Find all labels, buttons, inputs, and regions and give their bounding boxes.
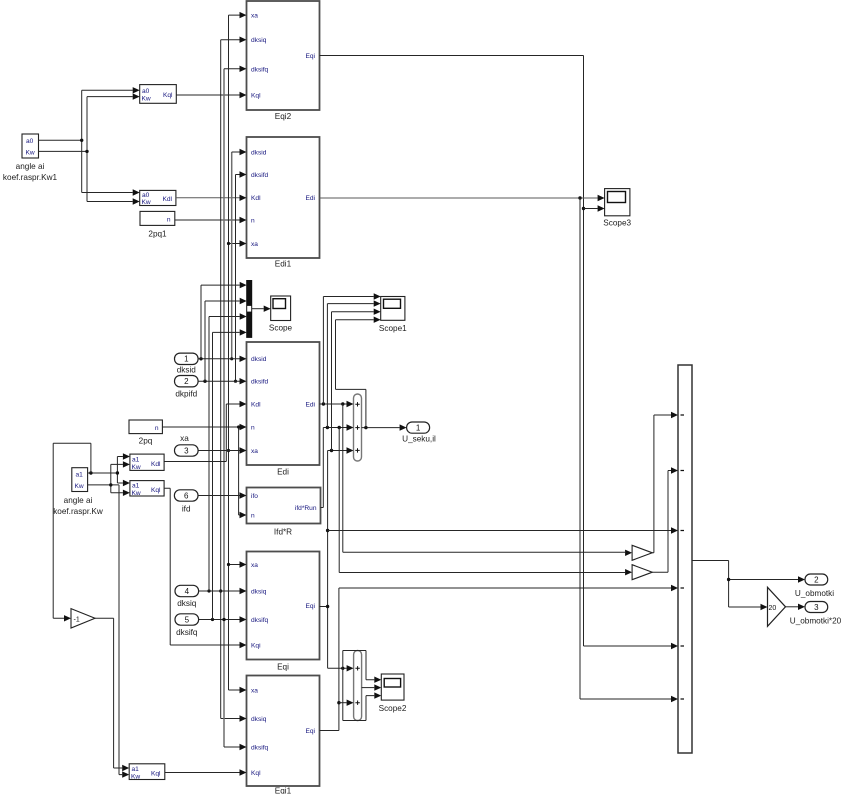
wire ifd*Run output to sum S1 in2 (net ifd*Run): [321, 424, 354, 507]
wire a0 from source to Kql/Kdl blocks: [39, 87, 140, 196]
svg-text:a1: a1: [132, 456, 140, 463]
wire ifd*Run branch down to gain G2: [339, 428, 632, 576]
wire loop Eqi1 around sum to Scope2 in3: [343, 692, 382, 720]
svg-text:2: 2: [814, 576, 819, 585]
wire port5 dksifq to Eqi: [199, 616, 247, 622]
svg-text:2pq: 2pq: [139, 437, 153, 446]
wire dksiq branch to mux M1 in3: [209, 313, 247, 591]
wire mux M2 output to port U_obmotki: [692, 561, 805, 608]
gain triangle 20: [768, 587, 786, 626]
scope block Scope2: [379, 674, 407, 713]
gain triangle -1: [71, 609, 95, 628]
svg-text:dksiq: dksiq: [177, 599, 197, 608]
svg-text:koef.raspr.Kw: koef.raspr.Kw: [53, 507, 103, 516]
scope block Scope1: [379, 297, 407, 334]
input port 3 (xa): [175, 434, 199, 456]
svg-text:Eqi: Eqi: [305, 728, 315, 735]
svg-text:Eqi: Eqi: [305, 603, 315, 610]
svg-text:dksiq: dksiq: [251, 37, 267, 44]
gain triangle G1 (upper small): [632, 545, 652, 560]
wire dksifq branch to mux M1 in4: [213, 329, 247, 619]
wire Kql to Eqi2.Kql: [176, 92, 246, 98]
wire mux M2 output branch to gain 20: [729, 604, 768, 610]
subsystem block Kdl (a0,Kw -> Kdl): [140, 190, 176, 206]
svg-text:xa: xa: [251, 688, 258, 695]
svg-text:Edi1: Edi1: [275, 260, 292, 269]
wire Eqi down to sum S2 in1: [328, 665, 354, 671]
wire Edi to Scope1 in1: [323, 293, 380, 404]
svg-text:Scope2: Scope2: [379, 704, 407, 713]
svg-text:3: 3: [814, 603, 819, 612]
wire port2 dkpifd to Edi: [198, 378, 246, 384]
svg-text:ifd: ifd: [182, 505, 191, 514]
constant block 2pq (n): [129, 420, 162, 446]
wire net dksifd vertical to Edi1: [234, 171, 247, 383]
wire Eqi1 output to mux M2 in4 (net Eqi1): [320, 585, 679, 731]
wire port1 dksid to Edi: [198, 356, 246, 362]
wire a1 from source to Kdl/Kql lower blocks: [88, 453, 130, 486]
wire gain G1 output up to mux M2 in1: [652, 412, 678, 553]
scope block Scope3: [603, 189, 631, 228]
svg-text:Edi: Edi: [277, 468, 289, 477]
source block a1/Kw (angle ai koef.raspr.Kw): [53, 468, 103, 516]
svg-text:dksifq: dksifq: [251, 66, 269, 73]
subsystem block Eqi1: [247, 676, 320, 794]
wire a1 loop to gain -1: [53, 443, 91, 621]
svg-text:U_obmotki*20: U_obmotki*20: [790, 617, 842, 626]
subsystem block Kql lower (a1,Kw -> Kql): [130, 481, 164, 497]
svg-text:dksifd: dksifd: [251, 172, 269, 179]
svg-text:Kw: Kw: [75, 483, 84, 490]
subsystem block Kql bottom (a1,Kw -> Kql): [129, 764, 165, 781]
svg-text:dkpifd: dkpifd: [175, 390, 197, 399]
svg-text:dksiq: dksiq: [251, 589, 267, 596]
wire Eqi1 branch to sum S2 in2: [339, 700, 354, 706]
svg-text:dksifq: dksifq: [176, 628, 198, 637]
svg-text:a0: a0: [142, 192, 150, 199]
wire Edi output to sum S1 in1 (net Edi): [320, 401, 354, 407]
svg-text:dksid: dksid: [251, 150, 267, 157]
wire Kql bottom block to Eqi1.Kql: [165, 769, 247, 775]
svg-text:dksifq: dksifq: [251, 745, 269, 752]
svg-text:Scope3: Scope3: [603, 219, 631, 228]
wire dksifd branch to mux M1 in2: [205, 298, 247, 381]
svg-text:U_seku,il: U_seku,il: [402, 435, 436, 444]
gain triangle G2 (lower small): [632, 565, 652, 580]
wire U_seku,il branch up to Scope1 in4: [336, 317, 381, 428]
svg-text:Eqi2: Eqi2: [275, 112, 292, 121]
output port 3 (U_obmotki*20): [790, 602, 842, 626]
svg-text:Scope1: Scope1: [379, 324, 407, 333]
wire ifd*Run to Scope1 in2: [327, 300, 380, 427]
input port 5 (dksifq): [175, 614, 199, 637]
subsystem block Kql (a0,Kw -> Kql): [140, 85, 177, 104]
svg-text:n: n: [155, 425, 159, 432]
wire sum S2 output to Scope2 in2: [362, 684, 382, 690]
sum block S1 (3 inputs -> U_seku,il): [354, 394, 362, 461]
svg-text:a1: a1: [132, 766, 140, 773]
svg-text:Kql: Kql: [251, 93, 261, 100]
input port 2 (dkpifd): [175, 376, 199, 399]
subsystem block Edi1: [247, 137, 320, 269]
wire gain -1 output down to Kql bottom a1: [95, 618, 129, 771]
svg-text:Ifd*R: Ifd*R: [274, 528, 292, 537]
wire net dksifq vertical to Eqi2 and Eqi1: [222, 66, 246, 751]
source block a0/Kw (angle ai koef.raspr.Kw1): [3, 134, 58, 182]
wire Eqi long line to mux M2 in3: [328, 527, 678, 533]
wire mux M1 output to Scope: [252, 306, 271, 312]
svg-text:2: 2: [184, 377, 189, 386]
svg-text:Edi: Edi: [305, 195, 315, 202]
svg-text:a1: a1: [132, 483, 140, 490]
svg-text:Kw: Kw: [132, 464, 141, 471]
svg-text:Kqi: Kqi: [251, 643, 261, 650]
input port 4 (dksiq): [175, 585, 199, 608]
scope block Scope: [269, 296, 293, 333]
svg-text:Kdl: Kdl: [251, 195, 261, 202]
wire Kdl lower block to Edi.Kdl: [164, 401, 246, 462]
svg-text:Eqi1: Eqi1: [275, 787, 292, 794]
wire net dksiq vertical to Eqi2 and Eqi1: [219, 37, 246, 722]
subsystem block Kdl lower (a1,Kw -> Kdl): [130, 454, 164, 471]
wire Edi branch down to gain G1: [343, 404, 632, 556]
svg-text:3: 3: [184, 446, 189, 455]
svg-text:dksifq: dksifq: [251, 617, 269, 624]
wire n (2pq1) to Edi1.n: [175, 217, 247, 223]
svg-text:Kdl: Kdl: [162, 196, 172, 203]
svg-text:n: n: [251, 218, 255, 225]
svg-text:Kql: Kql: [163, 92, 173, 99]
wire n (2pq) to Edi.n and Ifd*R.n: [162, 424, 246, 518]
svg-text:dksiq: dksiq: [251, 716, 267, 723]
svg-text:dksid: dksid: [251, 356, 267, 363]
sum block S2 (2 inputs -> Scope2): [354, 651, 362, 721]
svg-text:a0: a0: [142, 88, 150, 95]
svg-text:Kw: Kw: [142, 199, 151, 206]
wire Kql lower block to Eqi.Kqi: [164, 488, 246, 648]
svg-text:Kql: Kql: [151, 487, 161, 494]
svg-text:Edi: Edi: [305, 402, 315, 409]
wire dksid branch to mux M1 in1: [201, 282, 247, 359]
svg-text:Kql: Kql: [151, 771, 161, 778]
svg-text:-1: -1: [74, 616, 80, 623]
svg-text:Eqi: Eqi: [305, 53, 315, 60]
svg-text:Kdl: Kdl: [251, 402, 261, 409]
svg-text:xa: xa: [251, 448, 258, 455]
svg-text:dksid: dksid: [177, 366, 197, 375]
input port 1 (dksid): [175, 353, 199, 374]
svg-text:angle ai: angle ai: [64, 496, 93, 505]
svg-text:xa: xa: [180, 434, 189, 443]
wire sum S1 output to port U_seku,il: [362, 424, 407, 430]
svg-text:2pq1: 2pq1: [148, 230, 167, 239]
svg-text:Kql: Kql: [251, 770, 261, 777]
svg-text:n: n: [167, 217, 171, 224]
svg-text:Kw: Kw: [131, 773, 140, 780]
wire net xa vertical with branches: [227, 12, 247, 693]
svg-text:Kw: Kw: [26, 150, 35, 157]
subsystem block Eqi: [247, 552, 320, 672]
wire Eqi2 output right and down (net Eqi2): [320, 56, 679, 650]
svg-text:dksifd: dksifd: [251, 379, 269, 386]
wire port6 ifd to Ifd*R: [198, 492, 247, 498]
svg-text:a1: a1: [76, 472, 84, 479]
svg-text:1: 1: [416, 424, 421, 433]
svg-text:4: 4: [185, 587, 190, 596]
wire loop Eqi around sum to Scope2 in1: [343, 651, 382, 721]
svg-text:angle ai: angle ai: [16, 162, 45, 171]
input port 6 (ifd): [174, 490, 198, 514]
wire Kdl to Edi1.Kdl: [176, 195, 247, 201]
svg-text:xa: xa: [251, 13, 258, 20]
svg-text:Kw: Kw: [142, 96, 151, 103]
mux M2 (tall right mux): [678, 365, 692, 753]
wire Kw from source to Kql/Kdl blocks: [39, 93, 140, 204]
svg-text:xa: xa: [251, 241, 258, 248]
svg-text:5: 5: [185, 615, 190, 624]
wire port3 xa to Edi: [198, 447, 246, 453]
subsystem block Eqi2: [247, 1, 320, 121]
wire Eqi2 branch to Scope3 in2: [584, 205, 605, 211]
svg-text:n: n: [251, 513, 255, 520]
wire net dksid vertical to Edi1: [230, 149, 246, 361]
svg-text:Kw: Kw: [132, 490, 141, 497]
svg-text:ifo: ifo: [251, 493, 258, 500]
constant block 2pq1 (n): [140, 211, 175, 238]
svg-text:U_obmotki: U_obmotki: [795, 589, 834, 598]
svg-text:1: 1: [184, 355, 189, 364]
svg-text:a0: a0: [26, 138, 34, 145]
wire Eqi to Scope1 in3: [332, 309, 381, 451]
wire Edi1 down to mux M2 in6: [580, 198, 678, 702]
wire Eqi output up to sum S1 in3 (net Eqi): [320, 447, 354, 668]
wire Edi1 output to Scope3 in1 (net Edi1): [320, 195, 605, 201]
svg-text:n: n: [251, 425, 255, 432]
wire gain G2 output up to mux M2 in2: [652, 467, 678, 572]
svg-text:20: 20: [769, 605, 777, 612]
wire Kw from source to Kdl/Kql lower blocks: [88, 461, 130, 496]
svg-text:Scope: Scope: [269, 324, 293, 333]
subsystem block Edi: [247, 342, 320, 477]
wire Kw down to Kql bottom Kw: [119, 485, 129, 778]
wire port4 dksiq to Eqi: [199, 588, 247, 594]
svg-text:koef.raspr.Kw1: koef.raspr.Kw1: [3, 173, 58, 182]
mux M1 (black bar before Scope): [247, 281, 252, 338]
svg-text:6: 6: [184, 491, 189, 500]
svg-text:Kdl: Kdl: [151, 461, 161, 468]
wire gain 20 output to port U_obmotki*20: [786, 604, 806, 610]
svg-text:ifd*Run: ifd*Run: [295, 505, 317, 512]
svg-text:xa: xa: [251, 562, 258, 569]
svg-text:Eqi: Eqi: [277, 663, 289, 672]
subsystem block Ifd*R: [247, 488, 321, 537]
output port 1 (U_seku,il): [402, 422, 436, 444]
output port 2 (U_obmotki): [795, 574, 834, 598]
